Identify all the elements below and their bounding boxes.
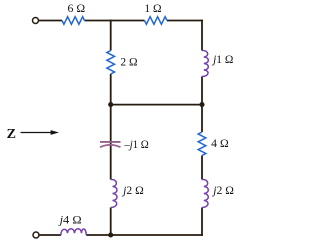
wire middle horizontal rail xyxy=(111,104,202,106)
terminal bottom-left xyxy=(33,232,39,238)
terminal top-left xyxy=(33,18,39,24)
node junction bottom rail xyxy=(108,232,113,237)
resistor R 1ohm xyxy=(145,17,168,25)
wire right branch upper xyxy=(201,20,203,51)
inductor j2 ohm middle branch xyxy=(111,179,117,207)
resistor R 2ohm vertical xyxy=(107,51,115,75)
inductor j2 ohm right branch xyxy=(202,179,208,207)
wire top rail right of 1-ohm xyxy=(167,20,203,22)
arrow for Z xyxy=(21,132,52,134)
inductor j1 ohm xyxy=(202,50,208,76)
wire bottom rail left of j4 xyxy=(39,234,61,236)
resistor R 6ohm xyxy=(62,17,85,25)
inductor j4 ohm bottom xyxy=(61,229,86,235)
svg-text:j1 Ω: j1 Ω xyxy=(211,54,233,66)
capacitor -j1 ohm bottom curved plate xyxy=(100,145,121,147)
wire middle branch between 2-ohm and j2 coil (passes capacitor) xyxy=(110,74,112,180)
wire right branch between j1 coil and 4-ohm xyxy=(201,77,203,133)
svg-text:6 Ω: 6 Ω xyxy=(68,3,86,15)
svg-text:4 Ω: 4 Ω xyxy=(211,138,229,150)
svg-text:1 Ω: 1 Ω xyxy=(144,3,161,15)
svg-text:–j1 Ω: –j1 Ω xyxy=(123,139,148,151)
node junction middle rail right xyxy=(199,102,204,107)
resistor R 4ohm vertical xyxy=(198,132,206,156)
wire top rail between 6-ohm and 1-ohm xyxy=(85,20,145,22)
svg-text:Z: Z xyxy=(7,127,16,142)
wire middle branch lower xyxy=(110,208,112,236)
node junction middle rail left xyxy=(108,102,113,107)
svg-text:j2 Ω: j2 Ω xyxy=(211,185,234,197)
wire middle branch upper xyxy=(110,20,112,51)
capacitor -j1 ohm top plate xyxy=(100,141,121,143)
svg-text:j2 Ω: j2 Ω xyxy=(121,185,144,197)
wire right branch between 4-ohm and j2 coil xyxy=(201,156,203,180)
svg-text:2 Ω: 2 Ω xyxy=(120,57,137,69)
svg-text:j4 Ω: j4 Ω xyxy=(57,215,81,227)
wire top rail left of 6-ohm xyxy=(39,20,62,22)
wire right branch lower xyxy=(201,208,203,236)
wire bottom rail right of j4 xyxy=(86,234,203,236)
